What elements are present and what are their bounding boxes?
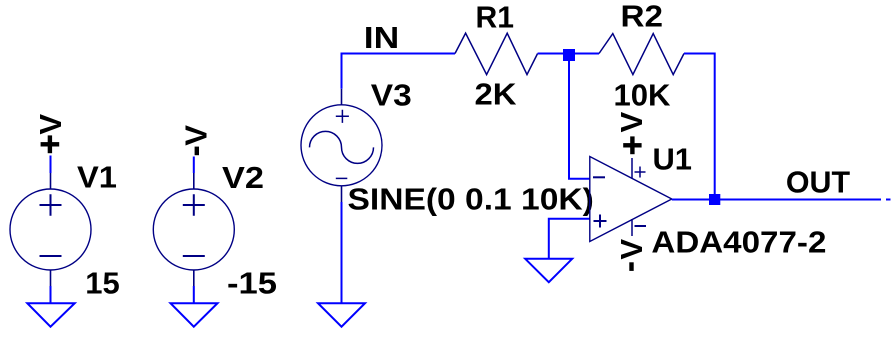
wire stub at right edge xyxy=(886,199,891,201)
op-amp inverting input marker xyxy=(593,176,605,178)
wire V1 bottom to ground xyxy=(50,286,52,304)
op-amp U1 body xyxy=(590,157,672,242)
wire V1 top pin to +V flag xyxy=(50,156,52,174)
svg-text:15: 15 xyxy=(85,266,120,301)
net flag -V (rotated) at V2 xyxy=(179,125,214,155)
voltage source V2 xyxy=(153,173,234,286)
svg-text:OUT: OUT xyxy=(786,165,850,200)
wire V2 top pin to -V flag xyxy=(193,157,195,174)
ground under V1 xyxy=(27,303,74,327)
ground at non-inverting input xyxy=(525,259,572,282)
svg-text:IN: IN xyxy=(364,20,400,55)
svg-text:V3: V3 xyxy=(371,78,412,113)
wire junction down to inverting input xyxy=(569,54,590,179)
wire V3 bottom to ground xyxy=(341,202,343,304)
svg-text:2K: 2K xyxy=(475,77,518,112)
resistor R1 xyxy=(455,33,538,74)
op-amp V+ supply pin xyxy=(631,158,633,179)
wire op-amp output to OUT xyxy=(672,199,881,201)
junction node at R1/R2 xyxy=(563,49,575,61)
wire non-inverting input to ground xyxy=(549,219,590,259)
voltage source V3 (sine) xyxy=(301,89,382,202)
ground under V3 xyxy=(318,303,365,327)
wire V3 top to node IN and to R1 xyxy=(342,54,456,89)
wire R1 to junction xyxy=(538,53,569,55)
svg-text:ADA4077-2: ADA4077-2 xyxy=(651,225,826,260)
svg-text:V: V xyxy=(179,125,214,146)
wire junction to R2 xyxy=(569,53,599,55)
wire V2 bottom to ground xyxy=(193,286,195,304)
svg-text:10K: 10K xyxy=(614,78,672,113)
svg-text:SINE(0 0.1 10K): SINE(0 0.1 10K) xyxy=(348,182,594,217)
op-amp V+ marker xyxy=(635,167,646,178)
resistor R2 xyxy=(599,34,684,75)
op-amp V- supply pin xyxy=(631,219,633,236)
svg-text:-15: -15 xyxy=(227,266,277,301)
svg-text:R1: R1 xyxy=(476,0,515,35)
svg-text:V2: V2 xyxy=(222,160,264,195)
net flag +V (rotated) at op-amp top xyxy=(614,112,649,155)
net flag +V (rotated) at V1 xyxy=(33,114,68,154)
voltage source V1 xyxy=(10,173,91,286)
ground under V2 xyxy=(171,303,218,327)
svg-text:V: V xyxy=(614,112,649,133)
junction node at output xyxy=(709,194,720,205)
svg-text:V: V xyxy=(33,114,68,135)
net flag -V (rotated) at op-amp bottom xyxy=(614,239,649,271)
wire R2 right down to output node xyxy=(684,54,715,200)
op-amp V- marker xyxy=(635,225,647,227)
op-amp non-inverting input marker xyxy=(594,215,607,228)
svg-text:V1: V1 xyxy=(77,160,117,195)
svg-text:R2: R2 xyxy=(621,0,664,34)
svg-text:V: V xyxy=(614,239,649,260)
svg-text:U1: U1 xyxy=(653,142,693,177)
